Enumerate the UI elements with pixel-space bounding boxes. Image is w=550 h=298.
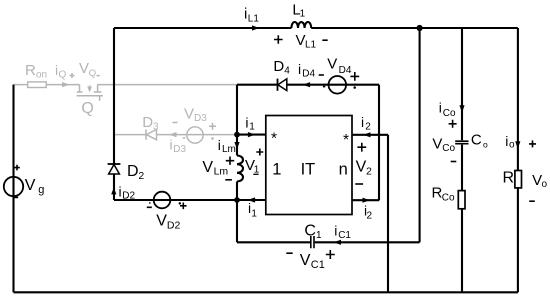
svg-text:Co: Co (443, 108, 456, 119)
svg-text:C1: C1 (311, 259, 325, 271)
svg-text:o: o (542, 179, 548, 190)
svg-text:D4: D4 (302, 68, 315, 79)
svg-text:i: i (119, 183, 122, 199)
svg-text:Q: Q (59, 70, 67, 81)
svg-text:V: V (300, 252, 311, 269)
svg-text:Lm: Lm (222, 144, 236, 155)
svg-text:D4: D4 (339, 65, 352, 76)
svg-text:2: 2 (367, 210, 373, 221)
svg-text:o: o (509, 140, 515, 151)
svg-text:1: 1 (251, 209, 257, 220)
svg-text:Q: Q (89, 68, 96, 79)
svg-text:o: o (483, 140, 488, 150)
svg-text:V: V (156, 213, 167, 230)
svg-text:i: i (170, 137, 173, 153)
svg-text:D: D (273, 58, 284, 75)
svg-text:2: 2 (138, 170, 144, 182)
svg-text:D: D (127, 163, 139, 180)
svg-text:i: i (298, 61, 301, 77)
svg-text:2: 2 (366, 165, 372, 177)
svg-text:V: V (356, 159, 367, 176)
svg-text:on: on (36, 70, 47, 81)
svg-text:L1: L1 (305, 40, 317, 51)
svg-text:L1: L1 (248, 13, 260, 24)
svg-text:D: D (142, 114, 153, 131)
svg-text:Co: Co (442, 143, 455, 154)
svg-text:R: R (503, 169, 515, 186)
svg-text:D2: D2 (122, 191, 135, 202)
svg-text:D2: D2 (167, 219, 181, 231)
svg-text:i: i (245, 114, 248, 130)
svg-text:*: * (271, 130, 277, 147)
svg-text:Lm: Lm (214, 166, 229, 178)
svg-text:D3: D3 (173, 144, 186, 155)
svg-text:V: V (79, 60, 89, 77)
svg-text:i: i (505, 133, 508, 149)
svg-text:i: i (218, 137, 221, 153)
svg-text:4: 4 (284, 66, 290, 77)
svg-text:n: n (339, 161, 348, 179)
svg-text:C1: C1 (338, 230, 351, 241)
svg-text:V: V (184, 106, 194, 123)
svg-text:IT: IT (301, 161, 316, 179)
svg-text:V: V (25, 177, 36, 194)
svg-text:1: 1 (272, 161, 281, 179)
svg-text:1: 1 (300, 9, 306, 20)
svg-text:1: 1 (316, 230, 322, 241)
svg-text:i: i (334, 222, 337, 238)
svg-text:C: C (304, 222, 316, 239)
svg-text:V: V (327, 56, 337, 73)
svg-text:i: i (439, 100, 442, 116)
svg-text:*: * (343, 132, 349, 149)
svg-text:Co: Co (442, 192, 455, 203)
svg-text:C: C (471, 132, 482, 149)
svg-text:g: g (38, 184, 44, 196)
svg-text:D3: D3 (194, 113, 207, 124)
svg-text:Q: Q (81, 100, 93, 117)
svg-text:V: V (296, 32, 306, 49)
svg-text:V: V (202, 159, 213, 176)
svg-text:i: i (361, 114, 364, 130)
svg-text:2: 2 (365, 121, 371, 132)
svg-text:3: 3 (153, 122, 159, 133)
svg-text:V: V (432, 135, 442, 152)
svg-text:R: R (25, 62, 36, 79)
svg-text:1: 1 (249, 122, 255, 133)
